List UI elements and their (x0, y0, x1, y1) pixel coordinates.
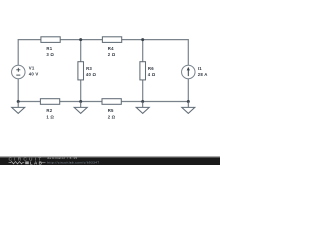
svg-text:R5: R5 (108, 108, 114, 113)
svg-text:http://circuitlab.com/c/b93347: http://circuitlab.com/c/b93347 (47, 160, 99, 164)
svg-text:I1: I1 (198, 66, 202, 71)
svg-text:V1: V1 (29, 65, 35, 70)
wire top rail R1 to R4 (60, 39, 102, 41)
label R4 2 Ohm (108, 46, 116, 57)
ground 1 (12, 102, 25, 114)
svg-text:40 Ω: 40 Ω (86, 72, 97, 77)
current source I1 (182, 65, 196, 79)
watermark logo resistor zigzag (9, 161, 29, 164)
svg-text:2 Ω: 2 Ω (108, 52, 116, 57)
label V1 40 V (29, 65, 39, 76)
watermark text line 2 URL (47, 160, 99, 164)
junction dot top node B (141, 38, 144, 41)
wire V1 bottom (17, 78, 19, 102)
svg-text:4 Ω: 4 Ω (148, 72, 156, 77)
svg-text:LAB: LAB (30, 160, 43, 165)
ground 2 (74, 102, 87, 114)
wire top rail R4 to I1 (122, 40, 189, 66)
label R5 2 Ohm (108, 108, 116, 119)
svg-text:1 Ω: 1 Ω (46, 114, 54, 119)
junction dot bottom node A (79, 100, 82, 103)
resistor R2 (40, 99, 59, 105)
wire I1 bottom (187, 78, 189, 101)
junction dot top node A (79, 38, 82, 41)
wire R3 branch lower (80, 80, 82, 102)
wire R6 branch upper (142, 40, 144, 62)
label R3 40 Ohm (86, 66, 97, 77)
watermark logo CIRCUIT (9, 157, 44, 163)
svg-text:28 A: 28 A (198, 72, 208, 77)
svg-text:2 Ω: 2 Ω (108, 114, 116, 119)
watermark bar (0, 156, 220, 165)
resistor R3 (78, 62, 84, 80)
voltage source V1 (12, 65, 26, 79)
ground 3 (136, 102, 149, 114)
wire R6 branch lower (142, 80, 144, 102)
label R2 1 Ohm (46, 108, 54, 119)
resistor R4 (102, 37, 121, 43)
svg-text:R4: R4 (108, 46, 114, 51)
wire R3 branch upper (80, 40, 82, 62)
watermark logo LAB (30, 160, 46, 165)
junction dot bottom left (17, 100, 20, 103)
wire bottom rail R2 to R5 (60, 101, 102, 103)
svg-text:R1: R1 (46, 46, 52, 51)
label R1 3 Ohm (46, 46, 54, 57)
svg-text:R6: R6 (148, 66, 154, 71)
svg-text:deminator / 6.15: deminator / 6.15 (47, 156, 77, 160)
resistor R6 (140, 62, 146, 80)
wire top rail V1 to R1 (18, 40, 41, 66)
junction dot bottom node B (141, 100, 144, 103)
watermark text line 1 (47, 156, 77, 160)
svg-text:3 Ω: 3 Ω (46, 52, 54, 57)
wire bottom rail V1 to R2 (18, 101, 40, 103)
svg-text:R3: R3 (86, 66, 92, 71)
junction dot bottom right (187, 100, 190, 103)
svg-text:R2: R2 (46, 108, 52, 113)
resistor R1 (41, 37, 60, 43)
svg-text:40 V: 40 V (29, 72, 39, 77)
ground 4 (182, 102, 195, 114)
wire bottom rail R5 to I1 (121, 101, 188, 103)
resistor R5 (102, 99, 121, 105)
label I1 28 A (198, 66, 208, 77)
label R6 4 Ohm (148, 66, 156, 77)
